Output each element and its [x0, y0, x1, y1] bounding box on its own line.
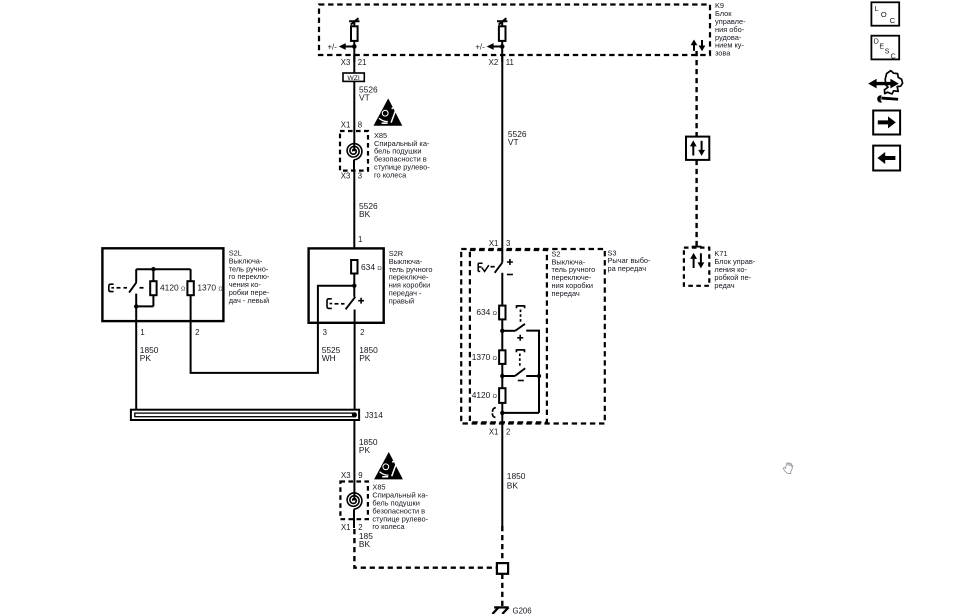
- pin labels X3 9: [341, 471, 362, 480]
- X85 description text: [374, 131, 430, 180]
- wire top bus S2L: [136, 268, 190, 270]
- wire 1850 BK down: [501, 424, 503, 527]
- svg-text:9: 9: [358, 471, 362, 480]
- wire label 5526 VT: [359, 85, 378, 103]
- S2R description text: [389, 249, 433, 305]
- dashed wire to ground: [501, 574, 503, 607]
- toolbar LOC button: [871, 2, 899, 25]
- wire 5526 BK: [353, 171, 355, 260]
- S2 description text: [552, 249, 596, 298]
- svg-text:зова: зова: [715, 49, 731, 58]
- mouse hand cursor: [783, 463, 793, 474]
- svg-text:дач - левый: дач - левый: [229, 296, 269, 305]
- WZI instrument box: [343, 55, 364, 82]
- pin labels X1 3: [489, 239, 510, 248]
- bottom contact curl: [492, 408, 495, 418]
- K9 internal connection T-bar: [497, 18, 507, 24]
- svg-text:BK: BK: [359, 539, 371, 549]
- wire to pin 3: [318, 286, 354, 323]
- switch S2L actuator and blade: [109, 282, 144, 292]
- clockspring spiral symbol lower: [347, 493, 362, 509]
- dashed wire 185 BK to splice: [354, 529, 497, 568]
- svg-text:C: C: [890, 16, 896, 25]
- clockspring spiral symbol: [347, 144, 362, 160]
- svg-text:3: 3: [358, 172, 362, 181]
- wire through X85 lower: [353, 482, 355, 529]
- wire S2R pin2 down to J314 (1850 PK): [354, 323, 356, 415]
- svg-text:3: 3: [323, 328, 327, 337]
- resistor 4120 ohm (S2L): [150, 269, 186, 306]
- svg-text:редач: редач: [714, 281, 734, 290]
- wire label 5526 BK: [359, 201, 378, 219]
- svg-text:WH: WH: [322, 353, 336, 363]
- dashed wire to splice square: [501, 526, 503, 563]
- svg-text:2: 2: [506, 428, 510, 437]
- branch switch 1 (+): [502, 305, 539, 413]
- splice pack J314: [131, 410, 383, 420]
- svg-text:11: 11: [506, 58, 514, 67]
- pin labels X2 11: [489, 58, 514, 67]
- signal arrow +/-: [475, 42, 502, 51]
- K9 internal connection T-bar: [349, 18, 359, 24]
- svg-text:3: 3: [506, 239, 510, 248]
- svg-text:PK: PK: [359, 353, 371, 363]
- junction node: [352, 44, 357, 49]
- resistor 634 ohm (S2): [476, 306, 505, 320]
- wire: [501, 364, 503, 388]
- svg-text:X1: X1: [489, 239, 499, 248]
- resistor (K9 internal coil): [351, 26, 358, 41]
- svg-text:J314: J314: [365, 410, 384, 420]
- svg-text:D: D: [874, 39, 879, 46]
- resistor (K9 internal coil): [499, 26, 506, 41]
- svg-text:S: S: [885, 49, 890, 56]
- svg-text:G206: G206: [513, 607, 532, 614]
- S2L description text: [229, 249, 270, 305]
- pin labels 1 and 2 (S2L bottom): [140, 328, 199, 337]
- wire: [501, 41, 503, 62]
- wire 5526 VT: [353, 81, 355, 131]
- svg-text:PK: PK: [359, 445, 371, 455]
- svg-text:2: 2: [195, 328, 199, 337]
- pin labels X1 2: [341, 523, 362, 532]
- K9 internal up-down arrows: [691, 40, 706, 52]
- svg-text:го колеса: го колеса: [372, 522, 405, 531]
- svg-text:21: 21: [358, 58, 367, 67]
- svg-text:правый: правый: [389, 296, 415, 305]
- svg-text:X3: X3: [341, 58, 351, 67]
- svg-text:ра передач: ра передач: [608, 264, 647, 273]
- switch S2L box: [102, 248, 223, 321]
- svg-text:+/-: +/-: [475, 42, 485, 51]
- resistor 4120 ohm (S2): [472, 388, 506, 403]
- svg-text:E: E: [879, 44, 884, 51]
- svg-text:+/-: +/-: [327, 42, 337, 51]
- pin labels X3 3: [341, 172, 362, 181]
- switch S2R contact blade: [327, 297, 364, 310]
- svg-text:8: 8: [358, 120, 362, 129]
- wire: [501, 21, 503, 26]
- inline connector box with arrows: [686, 137, 709, 160]
- junction node: [500, 329, 504, 333]
- switch S2 main contact: [478, 259, 513, 275]
- signal arrow +/-: [327, 42, 354, 51]
- svg-text:2: 2: [360, 328, 364, 337]
- svg-text:C: C: [891, 53, 896, 60]
- pin labels X1 8: [341, 120, 362, 129]
- wire upper contact: [135, 269, 137, 282]
- wire: [353, 274, 355, 297]
- connector X85 dashed box (clockspring upper): [340, 131, 368, 171]
- resistor 1370 ohm (S2): [472, 350, 506, 364]
- wire: [353, 21, 355, 26]
- wire pin 2 lower contact: [354, 310, 356, 323]
- wire below S2 main contact: [501, 273, 503, 306]
- wire end tick at K71: [692, 246, 702, 248]
- wire S2L pin2 to S2R pin3 (5525 WH): [191, 321, 318, 373]
- airbag warning triangle: [374, 98, 403, 125]
- wire X2/11 down to S3 (5526 VT): [501, 55, 503, 262]
- svg-text:PK: PK: [140, 353, 152, 363]
- junction node: [352, 284, 356, 288]
- svg-text:X1: X1: [341, 120, 351, 129]
- svg-text:BK: BK: [359, 209, 371, 219]
- junction node: [500, 374, 504, 378]
- wire label 5526 VT (column2): [508, 129, 527, 147]
- toolbar back-arrow button: [873, 146, 900, 171]
- switch S2R box: [309, 248, 384, 322]
- dashed wire K9 to inline connector: [695, 51, 697, 137]
- svg-text:X1: X1: [489, 428, 499, 437]
- K71 description text: [714, 249, 755, 290]
- module K71 dashed box with arrows: [684, 248, 709, 286]
- resistor 1370 ohm (S2L): [187, 269, 223, 321]
- connector X85 dashed box (clockspring lower): [340, 482, 368, 520]
- svg-text:го колеса: го колеса: [374, 170, 407, 179]
- wire label 1850 PK (S2R pin2): [359, 345, 378, 363]
- wire return bus to main: [502, 412, 539, 414]
- wire label 1850 PK: [359, 437, 378, 455]
- splice square node: [497, 563, 508, 574]
- module K9 dashed box: [319, 5, 710, 56]
- svg-text:X1: X1: [341, 523, 351, 532]
- wire label 5525 WH: [322, 345, 341, 363]
- airbag warning triangle: [374, 452, 403, 479]
- wire bottom contact: [501, 403, 503, 424]
- junction node: [500, 411, 504, 415]
- wire through X85: [353, 131, 355, 171]
- wire: [353, 41, 355, 62]
- svg-text:1: 1: [358, 235, 362, 244]
- pin labels X3 21: [341, 58, 367, 67]
- junction node: [151, 267, 155, 271]
- toolbar vehicle-comm icon: [868, 71, 902, 103]
- toolbar next-arrow button: [873, 111, 900, 135]
- svg-text:BK: BK: [507, 481, 519, 491]
- svg-text:1850: 1850: [507, 471, 526, 481]
- branch switch 2 (-): [502, 349, 541, 380]
- svg-text:X3: X3: [341, 172, 351, 181]
- svg-text:L: L: [875, 4, 879, 13]
- pin labels X1 2 (S2 bottom): [489, 428, 510, 437]
- svg-text:1: 1: [140, 328, 144, 337]
- wire label 1850 PK (S2L pin1): [140, 345, 159, 363]
- wire: [501, 319, 503, 350]
- lever S3 dashed box: [461, 249, 605, 424]
- svg-text:X2: X2: [489, 58, 499, 67]
- wire S2L pin1 to J314: [135, 321, 137, 410]
- S3 description text: [608, 248, 652, 273]
- svg-text:VT: VT: [508, 137, 519, 147]
- svg-text:передач: передач: [552, 289, 580, 298]
- svg-text:X3: X3: [341, 471, 351, 480]
- dashed wire connector to K71: [695, 160, 697, 248]
- K9 label text: [715, 1, 746, 57]
- wire 1850 PK below J314: [353, 420, 355, 482]
- resistor 634 ohm (S2R): [351, 260, 382, 274]
- X85 lower description text: [372, 483, 428, 532]
- svg-text:VT: VT: [359, 93, 370, 103]
- toolbar DESC button: [871, 36, 899, 61]
- svg-text:O: O: [881, 10, 887, 19]
- switch S2 dashed box: [470, 250, 547, 422]
- wire label 185 BK: [359, 531, 373, 549]
- svg-text:WZI: WZI: [347, 75, 360, 82]
- ground G206: [492, 607, 531, 614]
- wire lower contact to pin1: [134, 294, 153, 322]
- wire label 1850 BK: [507, 471, 526, 491]
- pin labels 3 and 2 (S2R bottom): [323, 328, 365, 337]
- junction node: [500, 44, 505, 49]
